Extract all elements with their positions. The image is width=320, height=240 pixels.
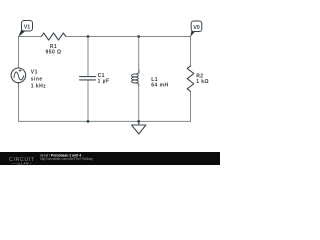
ground stem <box>138 121 140 125</box>
ground triangle <box>132 125 146 134</box>
junction dot bottom ground <box>137 120 140 123</box>
wire top right segment <box>66 36 191 38</box>
components (dark) <box>11 33 194 134</box>
svg-text:950 Ω: 950 Ω <box>46 50 62 56</box>
svg-text:1 µF: 1 µF <box>98 78 110 84</box>
svg-text:V1: V1 <box>31 69 38 75</box>
voltage source V1 circle <box>11 68 26 83</box>
wire R2 bottom lead <box>190 91 192 121</box>
svg-text:1 kHz: 1 kHz <box>31 83 46 89</box>
V1 plus sign <box>19 70 21 72</box>
wire C1 bottom lead <box>87 80 89 121</box>
svg-text:64 mH: 64 mH <box>151 82 168 88</box>
inductor L1 loop 3 <box>132 80 139 83</box>
wire C1 top lead <box>87 37 89 77</box>
node V1 callout <box>18 29 25 37</box>
V1 minus sign <box>17 82 19 84</box>
resistor R2 zigzag <box>187 66 194 92</box>
wire L1 bottom lead <box>138 86 140 122</box>
junction dot top L1 <box>137 35 140 38</box>
wire bottom <box>19 120 191 122</box>
wire left vertical upper <box>18 37 20 69</box>
svg-text:http://circuitlab.com/c/6eP5u7: http://circuitlab.com/c/6eP5u775r2bap <box>40 157 93 161</box>
capacitor C1 top plate <box>80 76 96 78</box>
footer bar <box>0 152 220 165</box>
svg-text:∼∼▬LAB∼: ∼∼▬LAB∼ <box>11 161 32 165</box>
V1 sine wave <box>14 72 24 80</box>
svg-text:V0: V0 <box>193 25 200 31</box>
junction dot bottom C1 <box>87 120 90 123</box>
capacitor C1 bottom plate <box>80 79 96 81</box>
wire L1 top lead <box>138 37 140 71</box>
inductor L1 loop 2 <box>132 77 139 80</box>
svg-text:sine: sine <box>31 76 43 82</box>
wire left vertical lower <box>18 82 20 121</box>
junction dot top C1 <box>87 35 90 38</box>
inductor L1 loop 1 <box>132 74 139 77</box>
svg-text:V1: V1 <box>24 25 31 31</box>
node V0 callout <box>190 31 195 37</box>
wires (light) <box>19 37 191 122</box>
svg-text:1 kΩ: 1 kΩ <box>196 79 209 85</box>
wire R2 top lead <box>190 37 192 66</box>
wire top left segment <box>19 36 42 38</box>
inductor L1 bottom hook <box>135 83 139 85</box>
inductor L1 top hook <box>135 70 139 74</box>
resistor R1 zigzag <box>41 33 66 40</box>
